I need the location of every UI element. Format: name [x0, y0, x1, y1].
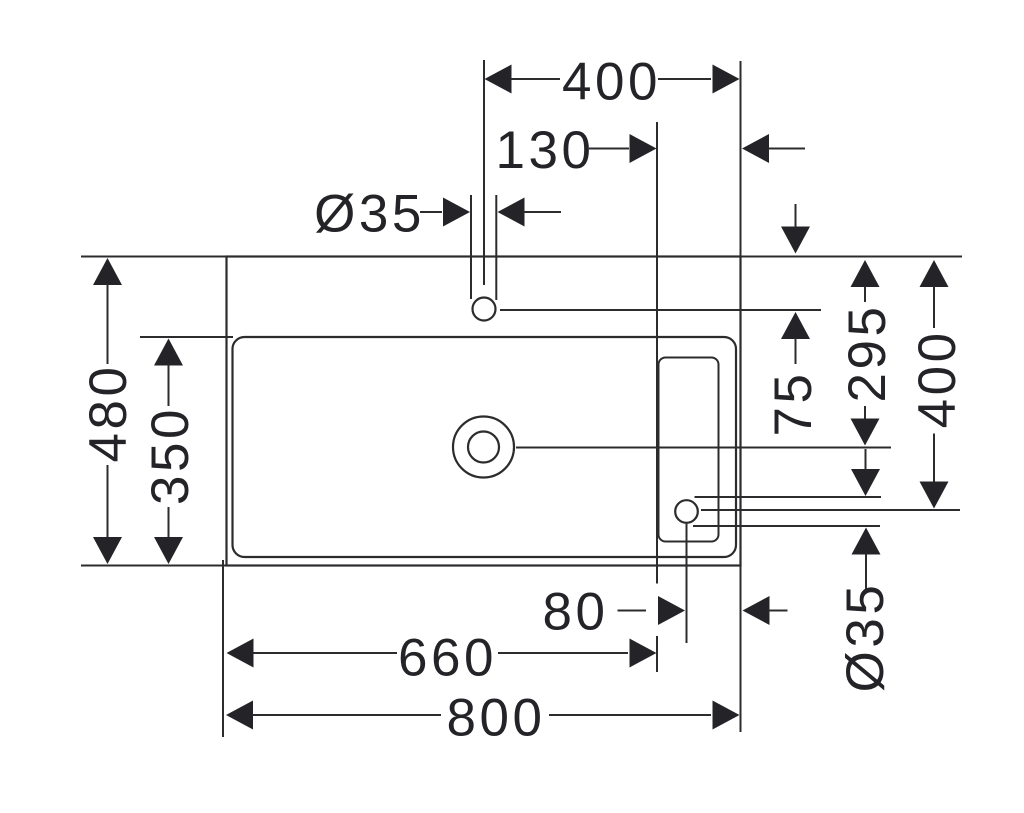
dim 800 arrow right [713, 701, 740, 730]
dim 75 shaft below [795, 338, 797, 364]
dim 130 arrow far right [742, 134, 769, 163]
dim 800 line right [549, 714, 711, 716]
dim 295 arrow down [851, 419, 880, 446]
ext line sink top left [81, 256, 227, 258]
dim 400 top arrow left [485, 65, 512, 94]
dim d35 right shaft bottom [865, 554, 867, 590]
ext line faucet center vertical [483, 60, 485, 285]
drain outer circle [453, 417, 514, 478]
dim 400 right shaft top [933, 286, 935, 328]
ext line right edge below [740, 566, 742, 732]
dim 350 arrow down [154, 537, 183, 564]
svg-text:295: 295 [838, 304, 897, 403]
svg-text:130: 130 [496, 121, 595, 180]
svg-text:660: 660 [398, 629, 497, 688]
dim 660 line left [253, 652, 398, 654]
dim 350 arrow up [154, 339, 183, 366]
ext line x657 upper [656, 122, 658, 584]
dim d35 right arrow up [852, 528, 881, 555]
leader faucet hole [500, 309, 821, 311]
svg-text:480: 480 [79, 364, 138, 463]
drain inner circle [468, 432, 499, 463]
faucet hole [473, 298, 496, 321]
dim 80 line [618, 610, 647, 612]
dim 400 top line left [511, 78, 561, 80]
leader shelf hole top [695, 496, 882, 498]
shelf hole [675, 500, 698, 523]
dim d35 right shaft top [865, 449, 867, 470]
ext line hole right edge [495, 195, 497, 300]
leader shelf hole bottom [693, 525, 880, 527]
dim 480 arrow up [93, 258, 122, 285]
svg-text:800: 800 [447, 689, 546, 748]
dim 80 tail [769, 610, 788, 612]
sink outer rect [227, 257, 741, 566]
dim 660 arrow right [630, 639, 657, 668]
leader drain center [516, 447, 891, 449]
ext line right edge above [740, 61, 742, 257]
dim 130 tail right [768, 148, 805, 150]
svg-text:80: 80 [543, 583, 609, 642]
dim d35 top arrow left [443, 198, 470, 227]
svg-text:Ø35: Ø35 [314, 185, 425, 244]
ext line sink bottom left [81, 565, 227, 567]
svg-text:Ø35: Ø35 [836, 582, 895, 693]
ext line hole left edge [470, 195, 472, 299]
svg-text:400: 400 [562, 53, 661, 112]
dim d35 top line [420, 211, 442, 213]
dim 75 arrow down [781, 227, 810, 254]
shelf rounded rect [659, 358, 719, 542]
dim 400 right shaft bottom [933, 434, 935, 483]
dim 295 shaft bottom [864, 406, 866, 420]
dim 480 arrow down [93, 537, 122, 564]
dim 660 line right [498, 652, 628, 654]
svg-text:75: 75 [764, 371, 823, 437]
dim 350 shaft bottom [168, 507, 170, 538]
dim 400 right arrow down [920, 482, 949, 509]
basin rounded rect [233, 337, 737, 557]
dim d35 right arrow down [851, 469, 880, 496]
dim 400 top arrow right [713, 65, 740, 94]
dim 350 shaft top [168, 365, 170, 407]
svg-text:350: 350 [141, 406, 200, 505]
dim 800 line left [252, 714, 441, 716]
dim 75 arrow up [781, 312, 810, 339]
dim 295 arrow up [851, 260, 880, 287]
dim d35 top arrow right [498, 198, 525, 227]
ext line x657 lower [656, 636, 658, 672]
dim 660 arrow left [227, 639, 254, 668]
dim 480 shaft bottom [107, 465, 109, 538]
leader shelf hole center [701, 509, 960, 511]
dim 400 right arrow up [920, 260, 949, 287]
dim 800 arrow left [226, 701, 253, 730]
dim 295 shaft top [864, 286, 866, 302]
dim 75 shaft above [795, 204, 797, 228]
dim 80 arrow right [658, 596, 685, 625]
svg-text:400: 400 [908, 329, 967, 428]
ext line left edge below [222, 560, 224, 737]
ext line shelf hole vertical [686, 524, 688, 644]
dim 130 arrow right [630, 134, 657, 163]
ext line sink top right [741, 256, 962, 258]
dim 80 arrow far right [743, 596, 770, 625]
dim 400 top line right [658, 78, 711, 80]
dim d35 top tail [524, 211, 562, 213]
dim 130 line [589, 148, 629, 150]
dim 480 shaft top [107, 284, 109, 364]
ext line basin top left [140, 336, 233, 338]
